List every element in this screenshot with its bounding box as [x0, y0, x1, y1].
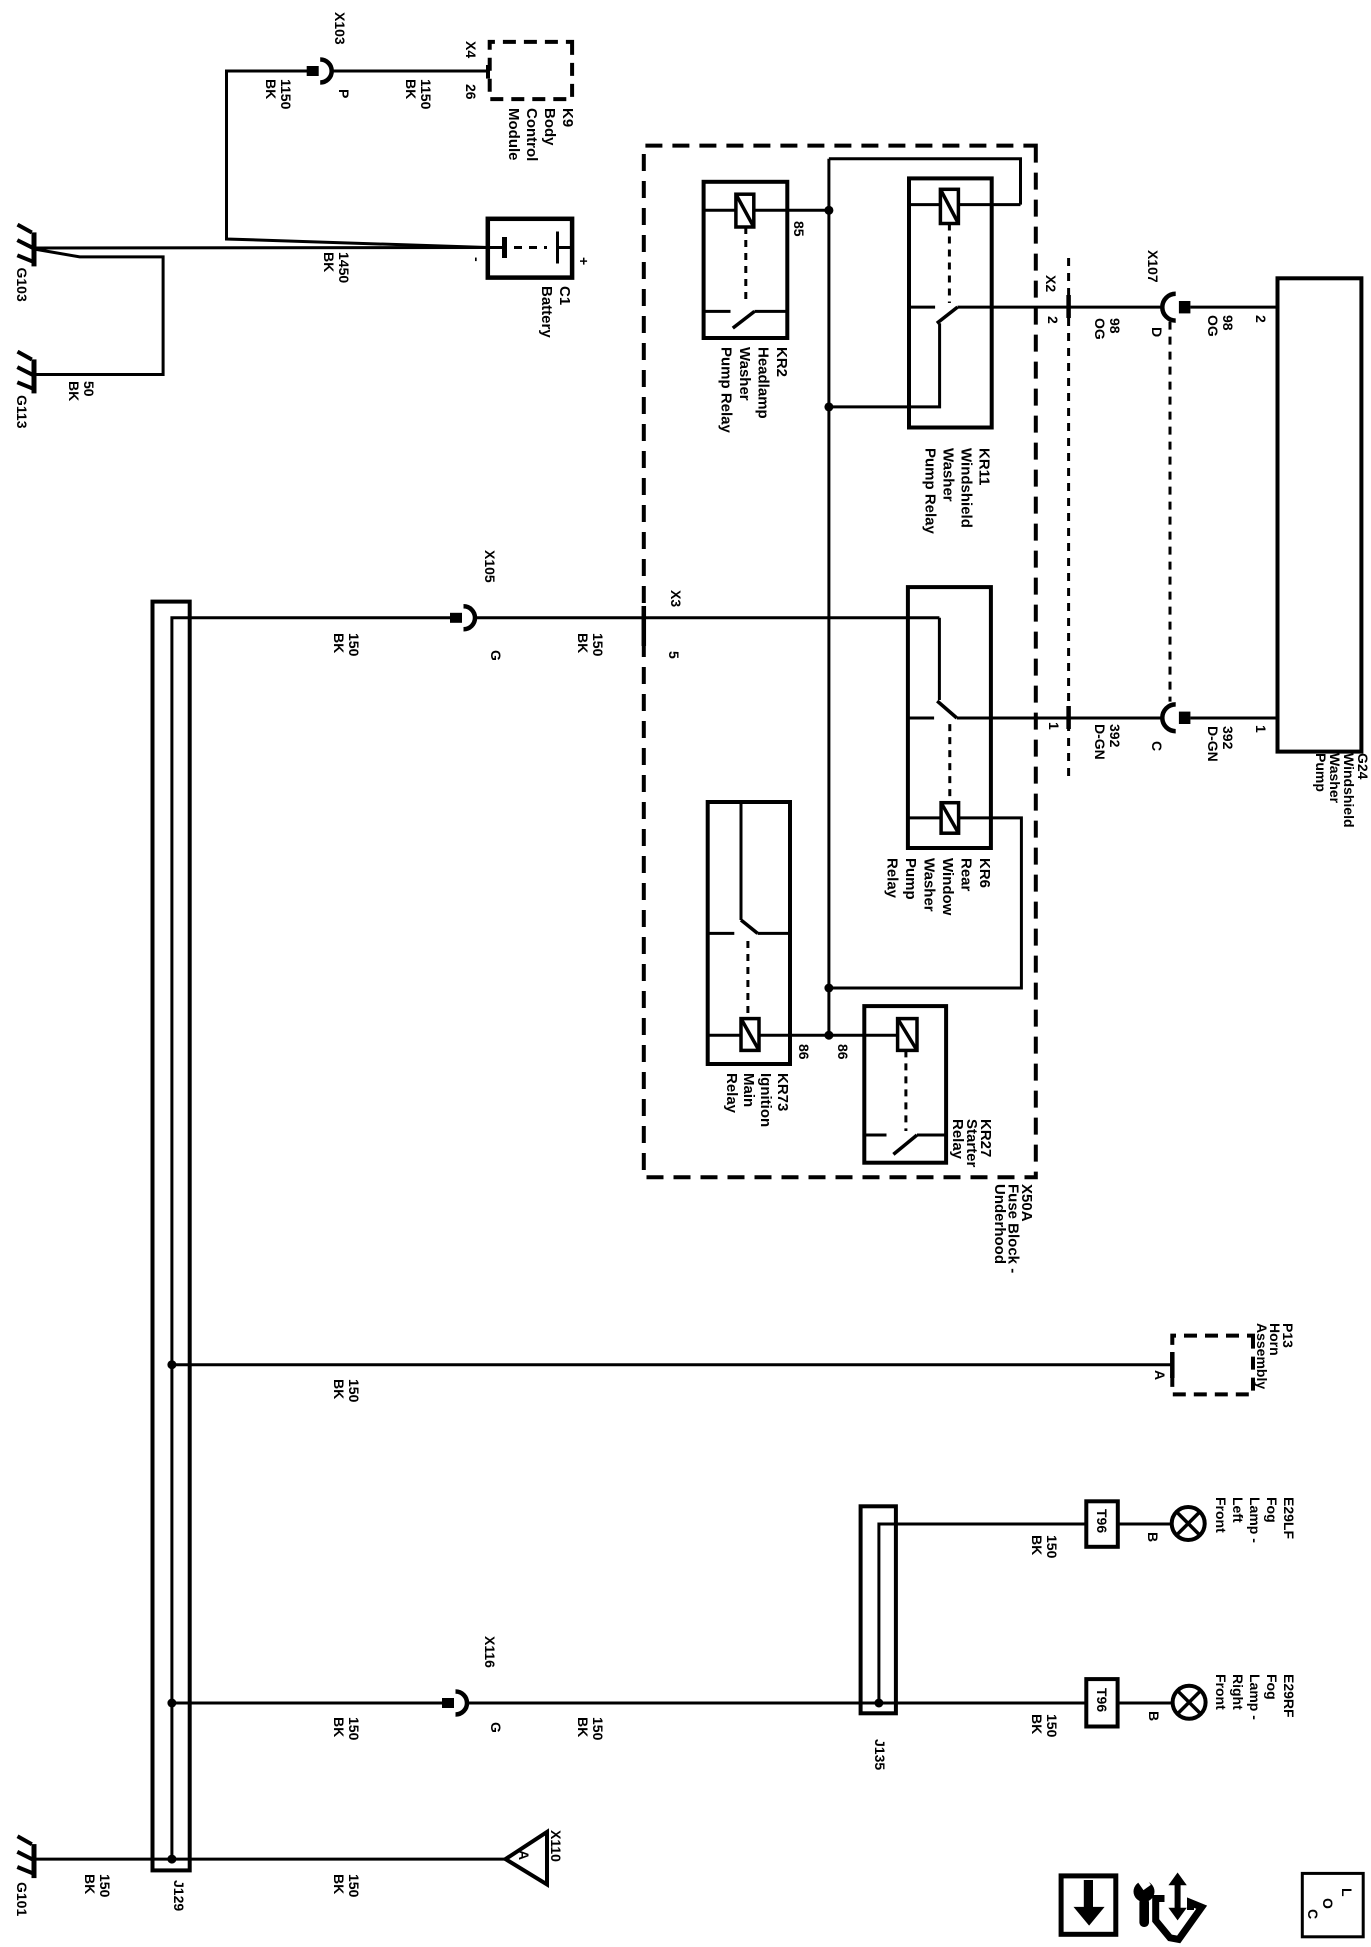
svg-text:B: B	[1146, 1711, 1162, 1721]
dashed link KR73	[746, 941, 749, 1019]
switch KR11	[909, 307, 992, 323]
dashed link KR11	[948, 224, 951, 304]
wire 98 OG X107 to G24 pin 2	[1190, 306, 1277, 309]
junction dot KR11 output on trunk	[824, 402, 833, 411]
svg-text:J129: J129	[171, 1880, 187, 1911]
svg-text:150BK: 150BK	[1029, 1714, 1060, 1738]
wire 150 BK X116 to J135 and E29RF	[467, 1702, 1086, 1705]
svg-text:O: O	[1320, 1898, 1336, 1909]
switch KR73	[708, 920, 790, 933]
wire KR6 coil lower stub	[908, 816, 941, 819]
connector X107 C female half	[1162, 704, 1175, 731]
svg-text:+: +	[576, 257, 592, 265]
connector X116 male terminal	[442, 1698, 454, 1708]
svg-text:150BK: 150BK	[575, 1717, 606, 1741]
junction J135 outer box	[861, 1506, 896, 1713]
wire 150 BK J135 to E29LF	[879, 1524, 1086, 1703]
connector X116 female half	[456, 1692, 468, 1715]
junction dot ground wire at J129	[167, 1855, 176, 1864]
svg-text:1: 1	[1046, 722, 1062, 730]
relay KR6 coil	[941, 803, 959, 834]
connector X105 female half	[464, 606, 475, 629]
relay KR11 coil	[940, 189, 958, 223]
svg-text:150BK: 150BK	[82, 1874, 113, 1898]
svg-text:G: G	[488, 1722, 504, 1733]
junction J129 outer box	[153, 602, 190, 1871]
junction dot 86 on trunk	[824, 1031, 833, 1040]
junction dot KR6 coil on trunk	[824, 984, 833, 993]
junction dot X116 wire at J129	[167, 1699, 176, 1708]
relay KR73 box	[708, 802, 790, 1064]
icon routing double arrow	[1168, 1873, 1186, 1921]
svg-text:2: 2	[1045, 316, 1061, 324]
svg-text:C: C	[1305, 1909, 1321, 1919]
wire trunk riser to KR11 coil feed	[829, 159, 1021, 205]
svg-text:B: B	[1145, 1532, 1161, 1542]
wire 150 BK X105 to KR6	[475, 616, 939, 619]
wire KR11 coil lower stub	[909, 203, 940, 206]
junction dot horn wire at J129	[167, 1360, 176, 1369]
svg-text:2: 2	[1253, 315, 1269, 323]
relay KR2 coil	[736, 194, 754, 227]
wire KR11 switch output to trunk	[829, 323, 940, 407]
svg-text:X105: X105	[482, 550, 498, 583]
connector X107 D female half	[1162, 294, 1175, 321]
wire 150 BK J129 to X105	[190, 616, 450, 619]
connector X2 dashed boundary	[1067, 258, 1070, 778]
svg-text:G101: G101	[14, 1882, 30, 1916]
icon wrench	[1134, 1876, 1155, 1927]
svg-text:G: G	[488, 650, 504, 661]
pin tick X2 pin 2	[1066, 295, 1071, 318]
ground G101	[17, 1836, 34, 1878]
svg-text:X103: X103	[332, 12, 348, 45]
svg-text:150BK: 150BK	[331, 1717, 362, 1741]
dashed link KR6	[948, 724, 951, 803]
wire T96 to E29LF lamp	[1118, 1523, 1172, 1526]
module K9 Body Control Module dashed box	[490, 42, 572, 99]
svg-text:150BK: 150BK	[575, 633, 606, 657]
svg-text:G113: G113	[14, 395, 30, 429]
svg-text:A: A	[516, 1850, 532, 1860]
wire KR2 coil lower stub	[704, 209, 736, 212]
svg-text:X2: X2	[1043, 275, 1059, 292]
svg-text:A: A	[1152, 1370, 1168, 1380]
wire 150 BK X110 to G101	[34, 1858, 507, 1861]
wire 50 BK G103 to G113	[34, 249, 163, 375]
svg-text:5: 5	[666, 651, 682, 659]
junction dot RF wire at J135	[874, 1699, 883, 1708]
wire 1150 BK X103 to BCM	[332, 70, 488, 73]
pin tick X2 pin 1	[1066, 706, 1071, 729]
battery C1 negative plate	[488, 237, 505, 258]
lamp E29RF symbol	[1173, 1686, 1206, 1719]
component G24 Windshield Washer Pump box	[1278, 278, 1362, 751]
wire T96 to E29RF lamp	[1118, 1702, 1172, 1705]
wire 150 BK J129 to X116	[172, 1702, 442, 1705]
relay KR73 coil	[741, 1019, 759, 1051]
splice T96 right box	[1086, 1679, 1117, 1726]
dashed link KR2	[744, 227, 747, 303]
connector X107 D male terminal	[1179, 301, 1191, 313]
svg-text:X110: X110	[548, 1830, 564, 1862]
svg-text:T96: T96	[1094, 1509, 1110, 1533]
wire 98 OG KR11 switch to X107 D	[992, 306, 1165, 309]
svg-text:26: 26	[463, 84, 479, 100]
relay KR2 box	[704, 182, 788, 338]
wire KR11 coil feed	[958, 203, 1020, 206]
svg-text:G103: G103	[14, 268, 30, 302]
svg-text:X4: X4	[463, 41, 479, 58]
svg-text:150BK: 150BK	[331, 633, 362, 657]
wire KR6 coil to trunk	[829, 818, 1022, 988]
switch KR6	[908, 701, 991, 718]
pin tick X3 pin 5	[642, 606, 647, 646]
wire 150 BK J129 to P13 horn	[172, 1363, 1172, 1366]
battery C1 dashed link	[514, 246, 547, 249]
splice T96 left box	[1086, 1501, 1118, 1547]
icon routing shape	[1156, 1899, 1202, 1940]
svg-text:150BK: 150BK	[1029, 1535, 1060, 1559]
wire KR73 coil lower stub	[708, 1034, 741, 1037]
connector X107 C male terminal	[1179, 712, 1191, 724]
ground G103	[17, 225, 34, 267]
svg-text:D: D	[1149, 327, 1165, 337]
icon LOC box	[1302, 1873, 1363, 1936]
pin tick X4 26	[486, 65, 490, 79]
relay KR27 box	[864, 1006, 946, 1163]
wire X103 branch to battery negative	[227, 71, 488, 248]
junction dot KR2 feed on trunk	[824, 206, 833, 215]
wire KR2 coil feed pin 85	[754, 209, 829, 212]
ground G113	[17, 352, 34, 394]
svg-text:1: 1	[1253, 725, 1269, 733]
battery C1 box	[488, 219, 572, 278]
pin tick A at P13	[1170, 1352, 1175, 1378]
switch KR27	[864, 1135, 946, 1154]
fuse block X50A Underhood dashed box	[644, 146, 1036, 1178]
svg-text:85: 85	[791, 221, 807, 237]
relay KR27 coil	[898, 1019, 917, 1051]
component P13 Horn Assembly dashed box	[1172, 1336, 1253, 1395]
svg-text:150BK: 150BK	[331, 1379, 362, 1403]
wire 86 KR73 coil to KR27 coil through trunk	[759, 1034, 898, 1037]
relay KR6 box	[908, 587, 991, 848]
svg-text:-: -	[469, 257, 485, 262]
switch KR2	[704, 311, 788, 328]
switch KR6 feed from 150 BK	[938, 618, 941, 700]
svg-text:X3: X3	[668, 590, 684, 607]
junction J129 inner box	[172, 618, 190, 1859]
connector X103 female half	[320, 60, 332, 83]
svg-text:X116: X116	[482, 1636, 498, 1668]
svg-text:86: 86	[835, 1044, 851, 1060]
lamp E29LF symbol	[1172, 1507, 1205, 1540]
connector X103 male terminal	[307, 66, 319, 76]
wire 392 D-GN KR6 switch to X107 C	[991, 717, 1164, 720]
battery C1 positive plate	[558, 232, 573, 264]
wire 86 trunk	[827, 159, 830, 1035]
wire 1450 BK battery negative to G103	[34, 246, 489, 250]
svg-text:T96: T96	[1094, 1688, 1110, 1712]
svg-text:L: L	[1339, 1888, 1355, 1897]
svg-text:150BK: 150BK	[331, 1874, 362, 1898]
connector X105 male terminal	[450, 613, 462, 623]
svg-text:C: C	[1149, 741, 1165, 751]
wire 392 D-GN X107 to G24 pin 1	[1190, 717, 1277, 720]
switch KR73 feed stub	[740, 802, 743, 920]
svg-text:P: P	[336, 89, 352, 98]
connector X107 dashed link	[1169, 322, 1172, 702]
svg-text:J135: J135	[872, 1739, 888, 1770]
svg-text:X107: X107	[1145, 250, 1161, 283]
icon power feed arrow box	[1061, 1876, 1116, 1934]
dashed link KR27	[904, 1050, 907, 1131]
relay KR11 box	[909, 178, 992, 427]
svg-text:86: 86	[796, 1044, 812, 1060]
connector X110 triangle	[506, 1832, 548, 1885]
